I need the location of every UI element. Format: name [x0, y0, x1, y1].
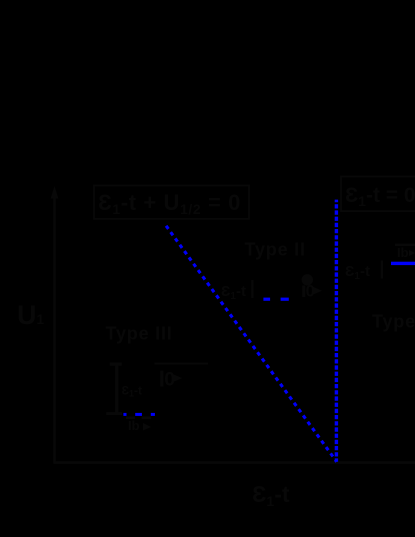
label ID-bar (above right-edge blue line, cut) [395, 244, 415, 260]
svg-text:Type I: Type I [372, 311, 415, 331]
svg-text:I: I [378, 254, 385, 284]
y-axis [51, 186, 59, 463]
label ID-bar (under dotted segment) [126, 416, 151, 433]
svg-text:I: I [249, 274, 256, 304]
svg-text:Ib: Ib [397, 245, 409, 260]
svg-text:Type III: Type III [106, 324, 173, 344]
blue vertical dashed line (Type I curve) [335, 200, 338, 462]
blue dotted segment (ID level, lower left) [123, 413, 155, 416]
blue horizontal dashed segment (level U1) [263, 298, 288, 301]
svg-text:Ɛ1-t = 0: Ɛ1-t = 0 [345, 184, 415, 209]
x-axis [54, 461, 415, 464]
label I0-arrow under level line [160, 369, 182, 391]
I-beam bracket spanning level line down to dotted ID level, labeled E1-t [106, 363, 142, 416]
svg-text:Ib: Ib [128, 418, 140, 433]
blue solid segment at right edge (ID level) [391, 262, 415, 265]
blue diagonal dashed line (Type II curve) [166, 226, 337, 462]
equation box 2 (cut off at right edge) [341, 177, 415, 212]
annotation blob with I0 arrow (right of diagonal) [302, 274, 322, 300]
black level line at y=363.5 [155, 363, 209, 365]
equation box 1 [94, 186, 249, 219]
svg-text:0: 0 [306, 282, 315, 300]
svg-text:Type II: Type II [245, 240, 306, 260]
